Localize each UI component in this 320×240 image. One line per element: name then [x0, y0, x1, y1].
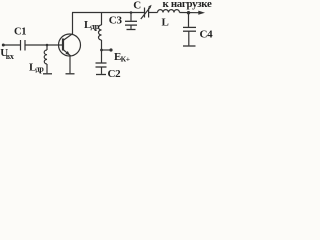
svg-text:др: др — [36, 65, 45, 74]
svg-text:C1: C1 — [14, 26, 26, 37]
svg-text:C3: C3 — [109, 14, 123, 26]
svg-text:к нагрузке: к нагрузке — [163, 0, 213, 10]
svg-text:C2: C2 — [108, 68, 122, 80]
svg-text:др: др — [91, 21, 100, 31]
svg-text:К+: К+ — [121, 55, 130, 64]
svg-text:L: L — [162, 17, 169, 29]
svg-text:вх: вх — [6, 52, 14, 61]
svg-text:C: C — [133, 0, 141, 12]
svg-text:C4: C4 — [200, 29, 214, 41]
